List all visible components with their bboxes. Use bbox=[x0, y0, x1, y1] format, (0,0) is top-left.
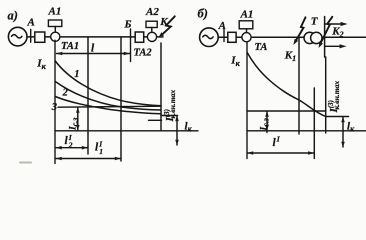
gridline transformer (x=314.3) bbox=[313, 88, 315, 159]
gridline l1 end (x=121) bbox=[120, 37, 122, 161]
dimension arrow l (TA1 to Б) bbox=[57, 53, 130, 55]
Iсз dimension arrow bbox=[77, 108, 79, 131]
svg-text:K: K bbox=[159, 16, 168, 28]
curve 1 Iк max bbox=[55, 61, 161, 106]
graph a: y-axis (under TA1) bbox=[54, 40, 56, 163]
graph a: x-axis bbox=[55, 130, 198, 132]
wire A2 connector bbox=[151, 28, 153, 33]
svg-text:3: 3 bbox=[51, 102, 57, 113]
node A tick b bbox=[223, 30, 225, 42]
Iк вн max dimension arrow (panel b) bbox=[342, 117, 344, 147]
transformer T bbox=[304, 32, 315, 43]
level line right of boundary (panel b) bbox=[326, 116, 349, 118]
dimension arrow l1 bbox=[56, 158, 121, 160]
generator G1 (panel a) bbox=[8, 27, 27, 46]
Iсз dimension arrow b bbox=[266, 112, 268, 133]
node A tick bbox=[30, 30, 32, 43]
pickup level line Iсз (panel a) bbox=[58, 106, 161, 107]
svg-text:2: 2 bbox=[62, 87, 69, 98]
fault K1 lightning arrow bbox=[296, 17, 306, 40]
level line Iк вн max (left of boundary, panel a) bbox=[149, 119, 162, 121]
breaker Q (panel b) bbox=[228, 32, 236, 42]
node Б line bbox=[130, 29, 132, 62]
breaker Q1 (panel a) bbox=[35, 32, 45, 42]
svg-text:A2: A2 bbox=[145, 6, 159, 18]
wire bus b bbox=[218, 36, 366, 38]
pickup level line Iсз (panel b) bbox=[247, 110, 326, 112]
relay A1 box b bbox=[239, 21, 253, 29]
graph b: x-axis bbox=[247, 130, 366, 132]
svg-text:TA1: TA1 bbox=[61, 41, 79, 52]
dimension arrow l (zone b) bbox=[248, 152, 314, 154]
K2 bus vertical bbox=[324, 17, 326, 58]
generator G2 (panel b) bbox=[200, 28, 219, 47]
gridline K1 (x=299) bbox=[298, 37, 300, 134]
CT TA circle b bbox=[242, 33, 251, 42]
fault K2 lightning arrow bbox=[321, 17, 333, 43]
svg-text:б): б) bbox=[198, 7, 208, 21]
gridline l2 end (x=88) bbox=[87, 37, 89, 154]
curve b Iк bbox=[247, 53, 326, 117]
boundary line after transformer (x=325.7) bbox=[325, 57, 327, 133]
svg-text:A1: A1 bbox=[240, 9, 254, 21]
curve 2 bbox=[55, 82, 161, 111]
Iк вн max dimension arrow (panel a) bbox=[176, 116, 178, 145]
dimension arrow l2 bbox=[56, 147, 88, 149]
svg-text:Iс.з: Iс.з bbox=[260, 118, 271, 131]
svg-text:A: A bbox=[218, 20, 226, 32]
svg-text:2: 2 bbox=[68, 141, 73, 150]
curve 3 bbox=[55, 97, 161, 114]
svg-text:A1: A1 bbox=[48, 6, 62, 18]
breaker Q2 (panel a) bbox=[135, 32, 144, 42]
svg-text:1: 1 bbox=[74, 69, 79, 80]
scan smudge artifact bbox=[19, 162, 32, 164]
fault K lightning arrow bbox=[162, 16, 175, 34]
CT TA1 circle bbox=[51, 32, 60, 41]
svg-text:Iс.з: Iс.з bbox=[69, 118, 80, 131]
svg-text:TA: TA bbox=[255, 42, 268, 53]
level line right of boundary (panel a) bbox=[161, 115, 178, 117]
svg-text:1: 1 bbox=[99, 147, 103, 156]
svg-text:A: A bbox=[27, 16, 35, 28]
relay A1 box bbox=[48, 20, 61, 27]
boundary line at fault K (x=161) bbox=[160, 43, 162, 131]
svg-text:Б: Б bbox=[124, 18, 132, 30]
CT TA2 circle bbox=[147, 32, 156, 41]
svg-text:а): а) bbox=[8, 9, 18, 23]
wire bus a bbox=[27, 36, 163, 38]
relay A2 box bbox=[146, 21, 157, 27]
wire A1 connector b bbox=[246, 29, 248, 33]
feeder top with arrow bbox=[325, 23, 345, 25]
wire A1 connector bbox=[54, 27, 56, 33]
graph b: y-axis bbox=[246, 42, 248, 159]
svg-text:TA2: TA2 bbox=[134, 47, 153, 58]
feeder bottom with arrow bbox=[325, 45, 344, 47]
